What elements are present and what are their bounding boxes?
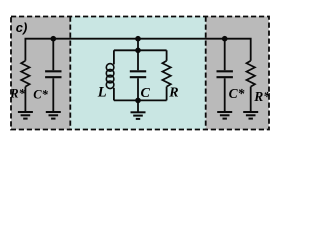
node: junction dot left capacitor [51, 36, 57, 42]
wire: resistor R top lead [166, 50, 168, 61]
wire: resistor R bottom lead [166, 87, 168, 101]
inductor L [106, 64, 114, 89]
right gray section background [206, 17, 269, 130]
wire: right resistor to ground [250, 87, 252, 112]
wire: right capacitor to ground [224, 78, 226, 112]
ground (right resistor) [243, 112, 258, 119]
dashed divider right (cyan/gray boundary) [205, 17, 207, 130]
wire: tank top rail [114, 49, 167, 51]
node: junction dot tank bottom [135, 98, 141, 104]
ground (left capacitor) [46, 112, 61, 119]
ground (middle) [131, 112, 146, 119]
capacitor C (middle) [130, 71, 146, 77]
ground (left resistor) [18, 112, 33, 119]
wire: bus to right capacitor [224, 39, 226, 70]
resistor R (middle) [162, 61, 170, 87]
middle cyan section background [70, 17, 205, 130]
wire: tank bottom rail [114, 99, 167, 101]
wire: tank bottom to ground [137, 100, 139, 112]
svg-text:C*: C* [229, 86, 245, 101]
wire: top rail to capacitor C [137, 50, 139, 70]
left gray section background [11, 17, 70, 130]
node: junction dot right capacitor [222, 36, 228, 42]
capacitor C* (left) [45, 71, 61, 77]
wire: main top bus with end drops [25, 39, 250, 61]
resistor R* (left) [21, 61, 29, 87]
outer dashed border [11, 17, 269, 130]
wire: inductor bottom lead [113, 88, 115, 101]
svg-text:R*: R* [253, 89, 270, 104]
wire: capacitor C to bottom rail [137, 78, 139, 100]
svg-text:C*: C* [33, 88, 48, 102]
wire: left resistor to ground [24, 87, 26, 112]
resistor R* (right) [247, 61, 255, 87]
svg-text:L: L [97, 84, 107, 100]
svg-text:c): c) [16, 20, 28, 35]
wire: bus to left capacitor [52, 39, 54, 70]
node: junction dot middle branch on bus [135, 36, 141, 42]
svg-text:R: R [168, 86, 178, 101]
ground (right capacitor) [217, 112, 232, 119]
node: junction dot capacitor C top [135, 48, 141, 54]
capacitor C* (right) [217, 71, 233, 77]
wire: inductor top lead [113, 50, 115, 64]
svg-text:R*: R* [9, 86, 25, 100]
svg-text:C: C [141, 86, 151, 101]
dashed divider left (gray/cyan boundary) [69, 17, 71, 130]
wire: bus to tank top rail [137, 39, 139, 51]
wire: left capacitor to ground [52, 78, 54, 112]
